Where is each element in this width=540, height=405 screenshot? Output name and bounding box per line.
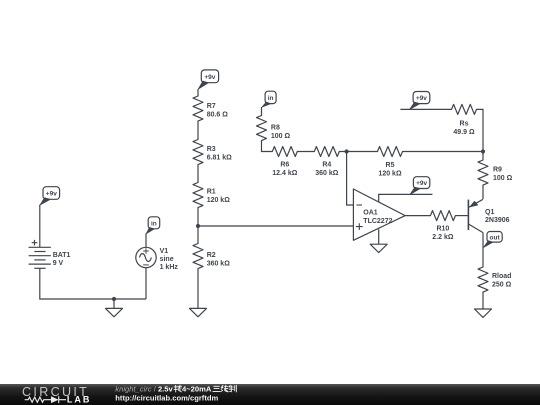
- svg-text:R7: R7: [207, 103, 216, 110]
- svg-text:R1: R1: [207, 189, 216, 196]
- svg-text:LAB: LAB: [67, 395, 92, 405]
- wire R9 to Q1 emitter: [482, 185, 484, 199]
- junction dot (summing node): [345, 149, 349, 153]
- resistor Rs: [452, 104, 477, 135]
- wire Rs to corner down to node: [477, 109, 484, 151]
- wire Rload to ground: [482, 292, 484, 309]
- svg-text:R5: R5: [386, 162, 395, 169]
- svg-text:Rload: Rload: [492, 273, 511, 280]
- wire summing node down to - input: [347, 152, 354, 206]
- svg-text:OA1: OA1: [363, 210, 378, 217]
- wire R3-R1: [197, 165, 199, 183]
- wire R4 to R5 through node: [339, 151, 377, 153]
- resistor R7: [193, 96, 228, 121]
- svg-text:9 V: 9 V: [53, 260, 64, 267]
- wire tap to op-amp + input: [198, 225, 353, 227]
- svg-text:R2: R2: [207, 252, 216, 259]
- svg-text:out: out: [490, 234, 501, 241]
- wire R5 to right node: [403, 151, 484, 153]
- svg-text:+9v: +9v: [416, 180, 427, 187]
- resistor Rload: [478, 267, 512, 292]
- wire R8 to R6: [262, 141, 273, 152]
- svg-text:250 Ω: 250 Ω: [492, 281, 512, 288]
- resistor R9: [478, 160, 513, 185]
- resistor R3: [193, 140, 232, 165]
- wire flag to R8: [261, 107, 263, 116]
- svg-text:4~20mA: 4~20mA: [182, 385, 212, 394]
- svg-text:49.9 Ω: 49.9 Ω: [453, 129, 475, 136]
- wire battery to bottom rail: [40, 268, 146, 299]
- in flag (R8 top): [262, 91, 277, 107]
- CJK: san xian zhi: [213, 385, 236, 392]
- svg-text:Rs: Rs: [460, 120, 469, 127]
- svg-text:100 Ω: 100 Ω: [271, 133, 291, 140]
- voltage source V1: [136, 247, 179, 270]
- svg-text:+9v: +9v: [416, 95, 427, 102]
- junction dot bottom rail: [112, 297, 116, 301]
- ground (Rload): [475, 309, 492, 317]
- out flag: [483, 232, 502, 248]
- op-amp V+ stub and wire: [379, 194, 433, 202]
- in flag (V1): [146, 217, 160, 234]
- wire R7-R3: [197, 121, 199, 140]
- svg-text:V1: V1: [160, 248, 169, 255]
- logo resistor-diode glyph: [25, 396, 66, 403]
- svg-text:80.6 Ω: 80.6 Ω: [207, 111, 229, 118]
- svg-text:Q1: Q1: [485, 209, 494, 216]
- svg-text:R8: R8: [271, 124, 280, 131]
- svg-text:120 kΩ: 120 kΩ: [207, 197, 231, 204]
- ground (bottom rail): [113, 299, 115, 308]
- wire flag to V1: [145, 234, 147, 248]
- svg-text:R9: R9: [493, 167, 502, 174]
- svg-text:360 kΩ: 360 kΩ: [315, 170, 339, 177]
- wire flag to battery: [39, 205, 41, 248]
- battery BAT1: [29, 240, 71, 268]
- svg-text:R6: R6: [280, 162, 289, 169]
- resistor R1: [193, 183, 230, 208]
- CJK: zhuan: [174, 385, 182, 392]
- wire Q1 collector down to Rload: [482, 233, 484, 267]
- +9v flag (battery): [40, 187, 60, 206]
- op-amp output wire: [405, 215, 430, 217]
- resistor R6: [272, 147, 297, 178]
- svg-text:1 kHz: 1 kHz: [160, 264, 179, 271]
- wire R1-R2 through junction: [197, 208, 199, 244]
- svg-text:sine: sine: [160, 256, 174, 263]
- op-amp OA1 TLC2272: [353, 189, 405, 240]
- transistor Q1 2N3906: [468, 199, 509, 232]
- ground (op-amp): [370, 244, 387, 252]
- resistor R5: [378, 147, 403, 178]
- svg-text:2.2 kΩ: 2.2 kΩ: [432, 234, 454, 241]
- junction dot (R5/R9 node): [481, 149, 485, 153]
- svg-text:BAT1: BAT1: [53, 252, 71, 259]
- svg-text:2N3906: 2N3906: [485, 217, 510, 224]
- resistor R10: [430, 211, 455, 242]
- wire R10 to Q1 base: [455, 215, 468, 217]
- footer bar: [0, 384, 540, 405]
- svg-text:R3: R3: [207, 146, 216, 153]
- junction dot (ladder tap): [196, 224, 200, 228]
- wire flag to R7: [197, 89, 199, 96]
- wire V1 to bottom rail: [145, 268, 147, 299]
- svg-text:R4: R4: [322, 162, 331, 169]
- resistor R2: [193, 244, 230, 269]
- wire rail to Rs: [400, 108, 451, 110]
- svg-text:6.81 kΩ: 6.81 kΩ: [207, 154, 232, 161]
- svg-text:R10: R10: [436, 226, 449, 233]
- svg-text:http://circuitlab.com/cgrftdm: http://circuitlab.com/cgrftdm: [115, 394, 218, 403]
- +9v flag (op-amp supply): [410, 177, 430, 195]
- svg-text:in: in: [151, 220, 157, 227]
- svg-text:12.4 kΩ: 12.4 kΩ: [272, 170, 297, 177]
- svg-text:in: in: [268, 95, 274, 102]
- svg-text:100 Ω: 100 Ω: [493, 175, 513, 182]
- op-amp V- stub: [378, 229, 380, 244]
- resistor R8: [257, 116, 291, 141]
- +9v flag (ladder top): [198, 70, 219, 90]
- svg-text:360 kΩ: 360 kΩ: [207, 260, 231, 267]
- wire R2 to ground: [197, 269, 199, 309]
- resistor R4: [314, 147, 339, 178]
- svg-text:+9v: +9v: [46, 191, 57, 198]
- svg-text:TLC2272: TLC2272: [363, 218, 392, 225]
- svg-text:120 kΩ: 120 kΩ: [378, 171, 402, 178]
- ground (ladder): [190, 308, 207, 316]
- svg-text:+9v: +9v: [204, 74, 215, 81]
- wire node to R9: [482, 152, 484, 161]
- svg-text:knight_circ / 2.5v: knight_circ / 2.5v: [115, 385, 173, 394]
- +9v flag (Rs rail): [409, 92, 429, 110]
- wire R6-R4: [297, 151, 314, 153]
